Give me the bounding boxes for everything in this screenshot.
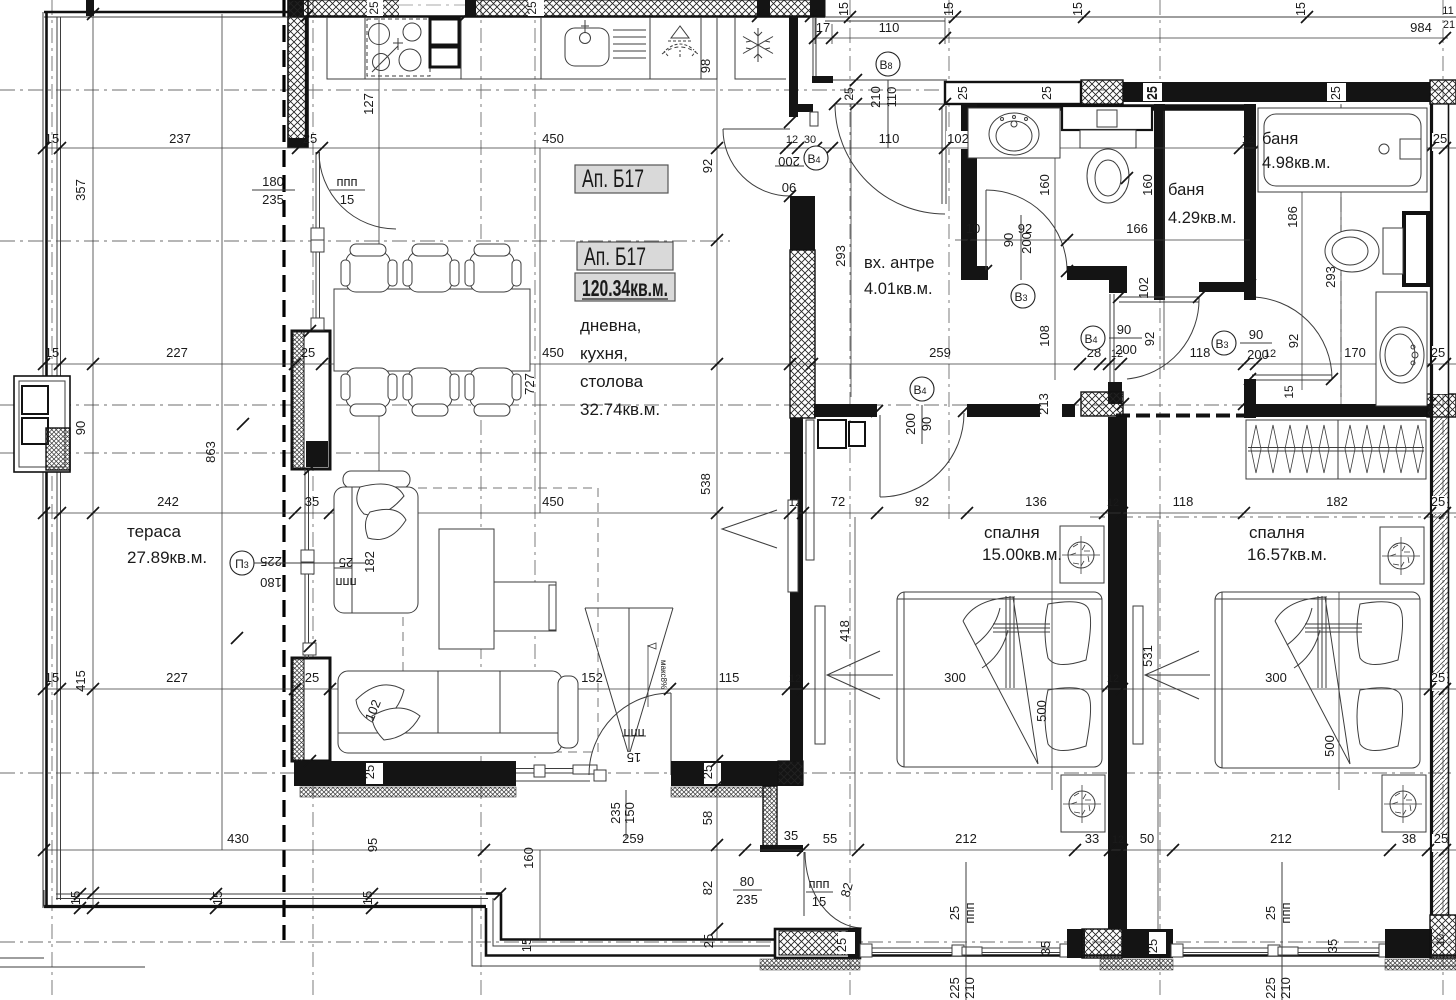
svg-text:25: 25 [701, 934, 716, 948]
bedroom2 bottom window [1177, 948, 1385, 953]
bottom insulation bands [760, 959, 860, 970]
svg-text:15: 15 [45, 131, 59, 146]
living/antre wall upper stub [789, 17, 798, 117]
vertical dim line x1164 [1158, 111, 1164, 929]
svg-text:110: 110 [884, 87, 899, 108]
hood [662, 26, 698, 57]
terrace bottom step [486, 908, 1456, 956]
axis grid horizontal G [0, 941, 1456, 943]
axis grid vertical 2 [312, 0, 314, 1000]
wc west wall lower [1244, 379, 1256, 418]
svg-text:160: 160 [1140, 174, 1155, 196]
svg-text:118: 118 [1190, 345, 1211, 360]
svg-text:92: 92 [915, 494, 929, 509]
vertical dim line x855 bedroom1 [854, 517, 856, 850]
room label bath2 [1262, 130, 1331, 172]
svg-text:180: 180 [262, 174, 284, 189]
entry door leaf [835, 103, 945, 105]
corridor top wall [1199, 282, 1256, 292]
axis grid vertical 6 [948, 0, 950, 520]
sofa armrest right [558, 676, 578, 748]
svg-text:B3: B3 [1215, 337, 1228, 351]
svg-text:72: 72 [831, 494, 845, 509]
dimension line y689 [44, 688, 1456, 690]
ticks x93 [87, 8, 99, 914]
svg-text:15: 15 [837, 2, 851, 16]
svg-text:4.01кв.м.: 4.01кв.м. [864, 280, 933, 298]
svg-text:25: 25 [956, 86, 970, 100]
bedroom1 dresser [818, 420, 865, 448]
bath1 bottom wall west [961, 266, 988, 280]
entry threshold outer line [833, 79, 947, 81]
ticks pillar C [231, 325, 316, 767]
svg-text:ппп: ппп [335, 575, 356, 590]
svg-text:259: 259 [929, 345, 951, 360]
svg-text:160: 160 [1037, 174, 1052, 196]
svg-text:15: 15 [45, 670, 59, 685]
svg-text:430: 430 [227, 831, 249, 846]
svg-text:12: 12 [1242, 134, 1254, 146]
terrace bottom inner lines [44, 890, 488, 907]
svg-text:450: 450 [542, 131, 564, 146]
svg-text:58: 58 [700, 811, 715, 825]
antre/bath wall [961, 104, 977, 280]
terrace window sash squares upper [311, 228, 324, 240]
svg-text:110: 110 [879, 20, 900, 35]
svg-text:55: 55 [823, 831, 837, 846]
svg-text:12: 12 [789, 497, 801, 509]
kitchen-antre door arc [723, 129, 790, 196]
bed dim overlay [897, 592, 1430, 768]
bath2 basin counter [1376, 292, 1427, 406]
room label living [580, 316, 660, 419]
bath1 sink counter [968, 108, 1060, 158]
dimension line y148 [44, 147, 1456, 149]
svg-text:10: 10 [966, 221, 980, 236]
svg-text:863: 863 [203, 441, 218, 463]
svg-text:15: 15 [627, 750, 641, 765]
svg-text:212: 212 [1270, 831, 1292, 846]
fraction ppp/15 living door [622, 726, 646, 765]
svg-text:П3: П3 [235, 557, 249, 571]
svg-text:210: 210 [1278, 977, 1293, 999]
svg-text:25: 25 [700, 765, 715, 779]
axis grid vertical 9 [1442, 0, 1444, 1000]
svg-text:259: 259 [622, 831, 644, 846]
svg-text:102: 102 [947, 131, 969, 146]
room label antre [864, 254, 934, 298]
svg-text:225: 225 [947, 977, 962, 999]
bedroom window sashes [860, 944, 872, 957]
svg-text:300: 300 [1265, 670, 1287, 685]
bed1 blanket [963, 596, 1050, 764]
bed2 blanket [1275, 596, 1362, 764]
ticks top band kitchen [301, 10, 817, 22]
sofa horizontal section [338, 671, 562, 753]
axis grid horizontal C [0, 404, 1456, 406]
circle B8 [868, 52, 900, 148]
top wall NE black [1123, 82, 1430, 102]
dimension line y364 [44, 363, 1456, 365]
corridor-bedroom2 wall link [1116, 414, 1244, 418]
ticks y148 [38, 142, 1451, 154]
fraction ppp/15 balcony door bedroom1 [806, 876, 856, 909]
ticks y364 B-cluster [1094, 358, 1106, 370]
svg-text:ппп: ппп [962, 902, 977, 923]
svg-text:357: 357 [73, 179, 88, 201]
svg-text:макс8%: макс8% [659, 660, 668, 689]
living bottom window sashes [534, 765, 545, 777]
white patches under labels [366, 763, 383, 784]
svg-text:B4: B4 [807, 152, 820, 166]
svg-text:дневна,: дневна, [580, 316, 641, 335]
svg-text:10: 10 [1435, 934, 1447, 946]
wc west wall upper [1244, 104, 1256, 300]
svg-text:152: 152 [581, 670, 603, 685]
top wall hatch band [288, 0, 825, 17]
svg-text:293: 293 [1323, 266, 1338, 288]
svg-text:25: 25 [1433, 131, 1447, 146]
svg-text:727: 727 [522, 373, 537, 395]
kitchen counter divisions [365, 17, 701, 79]
bath1 toilet [1080, 130, 1136, 203]
living wall hatch section [790, 250, 815, 418]
svg-text:237: 237 [169, 131, 191, 146]
terrace window sash squares lower [301, 550, 314, 562]
axis grid vertical 1 [51, 0, 53, 1000]
vertical dim line x1055 [1052, 111, 1055, 790]
circle B3 wc [1212, 327, 1272, 362]
svg-text:227: 227 [166, 345, 188, 360]
bedroom1 window arrow [827, 651, 893, 699]
svg-text:25: 25 [834, 938, 849, 952]
svg-text:B4: B4 [1084, 332, 1097, 346]
axis grid horizontal E [1090, 516, 1456, 518]
svg-text:450: 450 [542, 345, 564, 360]
bed2 pillows [1357, 602, 1403, 665]
svg-text:108: 108 [1037, 325, 1052, 347]
NE hatch block 2 [1430, 80, 1456, 104]
svg-text:вх. антре: вх. антре [864, 254, 934, 272]
svg-text:38: 38 [1402, 831, 1416, 846]
svg-text:90: 90 [1001, 233, 1016, 247]
sink [565, 20, 646, 66]
svg-text:12: 12 [1112, 834, 1124, 846]
svg-text:спалня: спалня [984, 523, 1040, 542]
svg-text:200: 200 [903, 413, 918, 435]
bed1 [897, 592, 1102, 767]
bed2 [1215, 592, 1420, 768]
svg-text:12: 12 [1107, 497, 1119, 509]
bedroom1 door arc [880, 413, 964, 497]
svg-text:25: 25 [1040, 86, 1054, 100]
svg-text:120.34кв.м.: 120.34кв.м. [582, 275, 668, 301]
vertical dim line x1341 [1339, 104, 1341, 790]
top wall bottom edge [288, 15, 825, 18]
bath2 toilet [1325, 228, 1403, 274]
bath1 door leaf [985, 190, 987, 271]
svg-text:тераса: тераса [127, 522, 181, 541]
svg-text:984: 984 [1410, 20, 1432, 35]
svg-text:32.74кв.м.: 32.74кв.м. [580, 400, 660, 419]
svg-text:25: 25 [1431, 670, 1445, 685]
svg-text:90: 90 [919, 417, 934, 431]
vertical dim line x851 left [850, 104, 852, 397]
svg-text:242: 242 [157, 494, 179, 509]
bath1 door arc [986, 190, 1067, 271]
svg-text:166: 166 [1126, 221, 1148, 236]
antre bottom wall [671, 761, 803, 786]
bedroom1 door leaf [879, 415, 881, 497]
dimension line y850 [44, 849, 1456, 851]
ticks y364 [38, 358, 1451, 370]
svg-text:15: 15 [1282, 385, 1296, 399]
svg-text:210: 210 [962, 977, 977, 999]
svg-text:25: 25 [367, 1, 381, 15]
fridge snowflake [743, 28, 773, 62]
svg-text:25: 25 [525, 1, 539, 15]
svg-text:227: 227 [166, 670, 188, 685]
living/bedroom1 wall [790, 418, 803, 761]
axis grid horizontal B [0, 240, 730, 242]
top wall black segment 1 [288, 0, 304, 17]
svg-text:293: 293 [833, 245, 848, 267]
svg-text:25: 25 [1329, 86, 1343, 100]
axis grid horizontal D [0, 452, 810, 454]
svg-text:50: 50 [1140, 831, 1154, 846]
living east window rail [788, 500, 798, 592]
svg-text:17: 17 [816, 20, 830, 35]
bedroom1 west jog wall [763, 786, 777, 846]
terrace rail left inner [57, 17, 61, 900]
bath1 east wall [1154, 104, 1165, 300]
bath2 divider stub [1404, 213, 1428, 285]
svg-text:80: 80 [740, 874, 754, 889]
svg-text:538: 538 [698, 473, 713, 495]
entry porch thin outline [813, 17, 816, 78]
living side pocket rail [806, 420, 814, 560]
gray box Ap B17 #1 [575, 165, 668, 193]
bold dashed site line [282, 0, 285, 940]
circle P3 terrace [230, 551, 366, 590]
bedrooms separating wall [1108, 417, 1127, 929]
bedroom2 window sashes [1171, 944, 1183, 957]
room label bedroom2 [1247, 523, 1327, 564]
wardrobe [1246, 420, 1426, 479]
svg-text:27.89кв.м.: 27.89кв.м. [127, 548, 207, 567]
fraction 150/235 rotated [608, 790, 637, 838]
coffee table [439, 529, 494, 649]
svg-text:500: 500 [1034, 700, 1049, 722]
bottom terrace slab ticks [74, 888, 506, 914]
svg-text:500: 500 [1322, 735, 1337, 757]
bedroom1 top wall west [814, 404, 877, 417]
svg-text:16.57кв.м.: 16.57кв.м. [1247, 545, 1327, 564]
svg-text:Ап. Б17: Ап. Б17 [584, 243, 646, 271]
circle B4 kitchen door [775, 146, 828, 195]
gray box area [575, 273, 675, 301]
svg-text:110: 110 [879, 131, 900, 146]
terrace window lower [305, 469, 309, 658]
axis grid vertical 7 [1159, 0, 1161, 1000]
bedroom2 window arrow [1145, 651, 1210, 699]
svg-text:кухня,: кухня, [580, 344, 628, 363]
vertical dim line x1302 [1301, 111, 1303, 390]
window dim cluster bedroom2 [1263, 862, 1293, 1000]
bedroom1 balcony door leaf [803, 852, 805, 916]
terrace window upper [316, 152, 320, 330]
axis grid vertical 3 [480, 0, 482, 1000]
svg-text:12: 12 [1264, 348, 1276, 360]
svg-text:25: 25 [842, 87, 856, 101]
entry door arc [835, 104, 945, 214]
bath2 tub [1258, 108, 1427, 192]
axis grid vertical 8 [1340, 85, 1342, 420]
nightstand1a [1060, 526, 1104, 583]
east outer wall lower hatched [1430, 417, 1449, 915]
room label terrace [127, 522, 207, 567]
svg-text:235: 235 [262, 192, 284, 207]
tv bench [494, 582, 556, 631]
svg-text:136: 136 [1025, 494, 1047, 509]
nightstand1b [1061, 775, 1105, 832]
terrace sliding pillar C [292, 331, 330, 469]
fraction ppp/15 top door [330, 174, 365, 207]
bedroom2 bottom wall east [1385, 929, 1432, 958]
svg-text:12: 12 [789, 673, 801, 685]
sofa pillows top [357, 484, 404, 515]
svg-text:B8: B8 [879, 58, 892, 72]
sofa vertical section [334, 487, 418, 613]
svg-text:15: 15 [1071, 2, 1085, 16]
living bottom door gap leaf [670, 693, 672, 775]
sofa pillows bottom [356, 685, 404, 724]
fraction 180/235 top door [252, 174, 295, 207]
svg-text:210: 210 [868, 86, 883, 108]
top wall black segment 5 [810, 0, 825, 17]
bath1 niche [1062, 106, 1152, 140]
axis grid vertical 4 [534, 0, 536, 758]
svg-text:B4: B4 [913, 383, 926, 397]
sofa side table [343, 471, 410, 488]
svg-text:Ап. Б17: Ап. Б17 [582, 165, 644, 193]
svg-text:200: 200 [1019, 232, 1034, 254]
svg-text:25: 25 [1145, 939, 1160, 953]
bedroom1 door A arc [1127, 297, 1199, 379]
svg-text:35: 35 [1325, 939, 1340, 953]
svg-text:35: 35 [1038, 941, 1053, 955]
svg-text:300: 300 [944, 670, 966, 685]
svg-text:90: 90 [73, 421, 88, 435]
wc door B leaf [1252, 375, 1332, 380]
lower-left stray slab line [0, 958, 145, 967]
svg-text:225: 225 [260, 554, 282, 569]
ticks y148 extra kitchen door [784, 98, 951, 202]
top wall white windows [1143, 83, 1162, 101]
fraction 80/235 [733, 874, 762, 907]
top wall black segment 4 [757, 0, 770, 17]
svg-text:столова: столова [580, 372, 644, 391]
bedroom interior dim 300/500 lines [897, 688, 1430, 690]
svg-text:25: 25 [1434, 831, 1448, 846]
svg-text:B3: B3 [1014, 290, 1027, 304]
corridor door jamb lines [1110, 294, 1114, 382]
bedroom1 radiator [815, 606, 825, 744]
circle B4 antre [903, 377, 934, 444]
svg-text:15: 15 [45, 345, 59, 360]
svg-text:15: 15 [340, 192, 354, 207]
living bottom door arc [589, 693, 671, 775]
svg-text:98: 98 [698, 59, 713, 73]
svg-text:25: 25 [947, 906, 962, 920]
svg-text:25: 25 [362, 765, 377, 779]
bed1 pillows [1045, 602, 1091, 665]
svg-text:170: 170 [1344, 345, 1366, 360]
svg-text:127: 127 [361, 93, 376, 115]
dimension line y38 top [815, 18, 1448, 44]
svg-text:531: 531 [1140, 645, 1155, 667]
svg-text:35: 35 [784, 828, 798, 843]
entry top wall outline [945, 82, 1081, 104]
ticks bedroom walls y405 [871, 398, 1436, 417]
living bottom wall [294, 761, 516, 786]
svg-text:225: 225 [1263, 977, 1278, 999]
ticks doors right [980, 172, 1338, 385]
ticks y513 [38, 507, 1451, 519]
svg-text:25: 25 [303, 131, 317, 146]
svg-text:ппп: ппп [1278, 902, 1293, 923]
vertical dim line x222 [221, 14, 223, 850]
svg-text:118: 118 [1173, 494, 1194, 509]
svg-text:спалня: спалня [1249, 523, 1305, 542]
svg-text:92: 92 [700, 159, 715, 173]
window dim cluster bedroom1 [947, 862, 977, 1000]
vertical dim line x379 [378, 16, 380, 505]
antre hatch corner block [778, 761, 803, 785]
bedroom1 top hatch block [1081, 392, 1123, 416]
svg-text:212: 212 [955, 831, 977, 846]
ticks y38 [809, 32, 1451, 44]
terrace bottom wall [44, 905, 486, 908]
terrace step inner thin [472, 898, 1456, 966]
top wall window gap [399, 0, 465, 16]
wc door B arc [1250, 297, 1332, 379]
svg-text:25: 25 [1146, 86, 1160, 100]
svg-text:12: 12 [786, 134, 798, 146]
svg-text:180: 180 [260, 575, 282, 590]
dining chairs bottom row [341, 368, 521, 416]
ticks y689 [38, 683, 1451, 695]
east wall borders [1430, 104, 1433, 915]
circle B4 corridor [1081, 322, 1142, 357]
bedroom1 top wall east [967, 404, 1075, 417]
svg-text:25: 25 [1263, 906, 1278, 920]
svg-text:25: 25 [305, 670, 319, 685]
terrace pillar D lower [292, 658, 330, 785]
svg-text:30: 30 [804, 134, 816, 146]
svg-text:450: 450 [542, 494, 564, 509]
svg-text:ппп: ппп [808, 876, 829, 891]
top-left wall stub [86, 0, 94, 16]
entry stub lower [789, 104, 813, 112]
svg-text:4.98кв.м.: 4.98кв.м. [1262, 154, 1331, 172]
svg-text:35: 35 [305, 494, 319, 509]
corridor wall notch [1109, 280, 1127, 293]
svg-text:90: 90 [1117, 322, 1131, 337]
bedroom1 jog cap [760, 845, 803, 852]
svg-text:4.29кв.м.: 4.29кв.м. [1168, 209, 1237, 227]
rug dashed [403, 488, 598, 752]
